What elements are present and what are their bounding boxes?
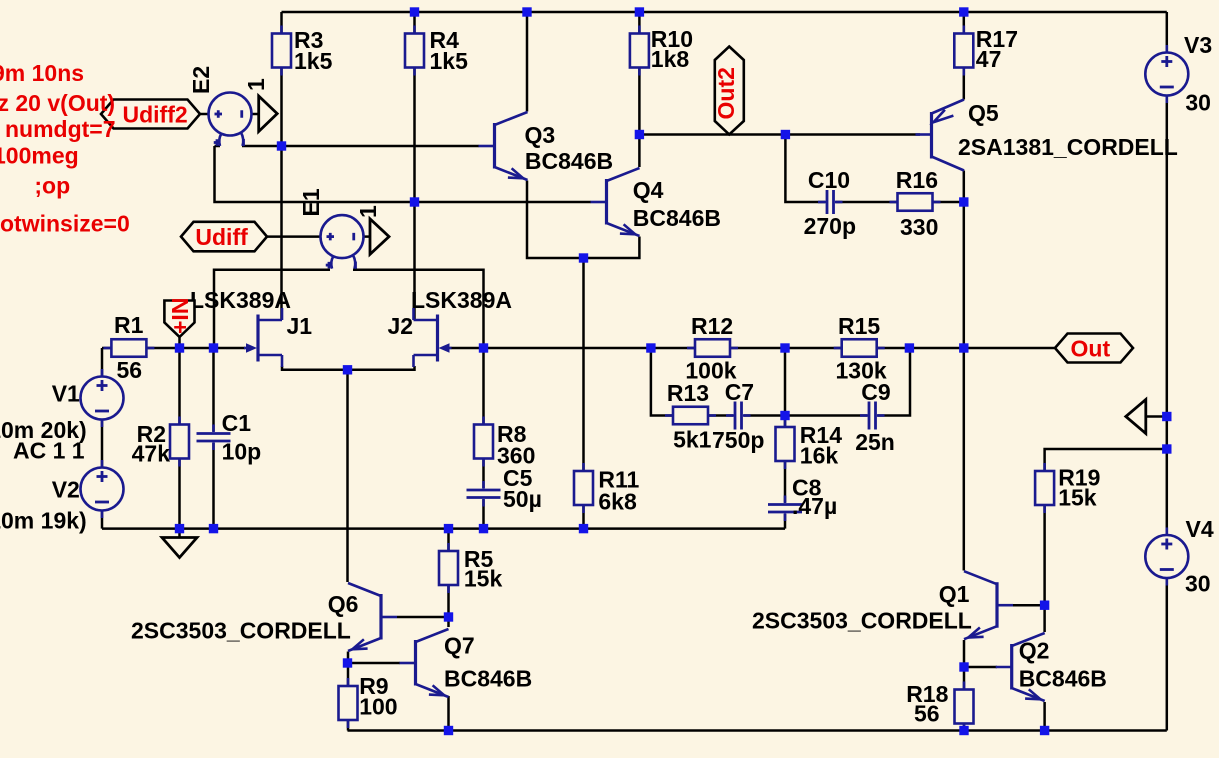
transistor Q3 BC846B xyxy=(479,112,614,180)
wire R2 column xyxy=(178,348,181,529)
wire R4 / J2 drain column xyxy=(413,12,416,320)
port Udiff xyxy=(181,222,267,252)
svg-text:E2: E2 xyxy=(188,66,214,94)
svg-text:Q7: Q7 xyxy=(444,633,475,659)
wire Q5 collector rail to Q1 xyxy=(963,171,966,571)
svg-text:C10: C10 xyxy=(808,167,850,193)
svg-text:2SC3503_CORDELL: 2SC3503_CORDELL xyxy=(752,608,972,634)
wire E1 out to buffer xyxy=(364,235,371,238)
wire Q6/Q7 base node wire xyxy=(348,662,400,665)
svg-text:330: 330 xyxy=(900,214,938,240)
wire +IN port stub xyxy=(178,337,181,348)
wire E2 minus to Q3 base xyxy=(242,145,479,148)
wire Udiff2 to E2 xyxy=(200,113,209,116)
transistor Q4 BC846B xyxy=(591,168,722,236)
capacitor C7 750p xyxy=(712,379,764,453)
ground xyxy=(162,538,197,558)
junction ground / R2 xyxy=(175,524,184,533)
svg-text:E1: E1 xyxy=(298,188,324,216)
wire feedback row xyxy=(484,347,1056,350)
junction Out2 node / C10 xyxy=(781,130,790,139)
svg-text:SINE(0 10m 19k): SINE(0 10m 19k) xyxy=(0,508,87,534)
svg-text:5k1: 5k1 xyxy=(673,427,712,453)
wire R19 column xyxy=(1045,449,1167,605)
wire J2 gate wire xyxy=(451,347,484,350)
transistor Q7 BC846B xyxy=(400,629,533,697)
transistor Q5 2SA1381_CORDELL xyxy=(916,100,1178,171)
wire right rail V3 top xyxy=(1166,12,1169,53)
svg-text:BC846B: BC846B xyxy=(1019,666,1107,692)
junction R12 / R13 xyxy=(646,343,655,352)
wire E2 plus jog xyxy=(215,145,221,148)
junction R19 / Q1 base / Q2 collector xyxy=(1040,601,1049,610)
wire Q3 collector xyxy=(526,12,529,112)
wire R18 column xyxy=(963,667,966,731)
port +IN xyxy=(164,298,194,337)
svg-text:BC846B: BC846B xyxy=(633,205,721,231)
wire reference arrow stub xyxy=(1146,415,1167,418)
svg-text:V4: V4 xyxy=(1186,516,1214,542)
svg-text:15k: 15k xyxy=(464,566,503,592)
reference arrow xyxy=(1126,400,1146,434)
svg-text:C7: C7 xyxy=(725,379,754,405)
junction Q4 base node xyxy=(410,197,419,206)
svg-text:Out2: Out2 xyxy=(713,67,739,119)
svg-text:z 20 v(Out): z 20 v(Out) xyxy=(0,90,115,116)
E source E2 xyxy=(188,66,269,146)
junction ground / C1 xyxy=(209,524,218,533)
resistor R15 130k xyxy=(834,313,887,384)
svg-text:1k5: 1k5 xyxy=(430,48,469,74)
svg-text:100meg: 100meg xyxy=(0,143,79,169)
wire R17 / Q5 emitter column xyxy=(963,12,966,100)
wire R11 column xyxy=(582,258,585,529)
svg-text:V1: V1 xyxy=(52,381,80,407)
svg-text:10p: 10p xyxy=(222,439,262,465)
capacitor C5 50u xyxy=(466,465,542,512)
wire C9 up to R15 right xyxy=(878,348,911,416)
wire Q1 emitter to node xyxy=(963,640,966,667)
svg-text:BC846B: BC846B xyxy=(525,148,613,174)
port Out xyxy=(1055,334,1133,363)
junction R16 / Q5 collector xyxy=(959,197,968,206)
wire right rail xyxy=(1166,95,1169,537)
wire input row xyxy=(102,347,245,350)
wire Q2 base wire xyxy=(964,666,997,669)
directive .four xyxy=(0,90,115,116)
transistor Q2 BC846B xyxy=(996,633,1107,701)
junction output node xyxy=(959,343,968,352)
svg-text:47k: 47k xyxy=(132,441,171,467)
wire tail to Q6 collector xyxy=(346,370,349,582)
directive 100meg xyxy=(0,143,79,169)
svg-text:R12: R12 xyxy=(691,313,733,339)
wire E1 plus sense riser xyxy=(214,270,330,348)
svg-text:1k8: 1k8 xyxy=(651,46,690,72)
wire ground rail xyxy=(102,527,785,530)
junction R15 / C9 xyxy=(905,343,914,352)
capacitor C10 270p xyxy=(804,167,856,239)
junction bottom rail / Q2 emitter xyxy=(1040,726,1049,735)
svg-text:;op: ;op xyxy=(34,173,70,199)
resistor R3 1k5 xyxy=(272,26,333,76)
resistor R10 1k8 xyxy=(630,26,693,76)
svg-text:numdgt=7: numdgt=7 xyxy=(5,116,116,142)
transistor Q6 2SC3503_CORDELL xyxy=(131,583,397,651)
resistor R2 47k xyxy=(132,417,189,467)
svg-text:Q1: Q1 xyxy=(939,581,970,607)
svg-text:56: 56 xyxy=(117,357,143,383)
port Udiff2 xyxy=(101,100,200,129)
resistor R17 47 xyxy=(954,26,1018,76)
svg-text:R13: R13 xyxy=(667,380,709,406)
wire C10 to R16 to Q5 collector xyxy=(834,201,964,204)
svg-text:Q6: Q6 xyxy=(328,591,359,617)
wire Q6 emitter to node xyxy=(347,652,350,664)
wire C10 drop xyxy=(785,135,826,203)
svg-text:270p: 270p xyxy=(804,213,856,239)
svg-text:56: 56 xyxy=(914,701,940,727)
junction top bus / Q3 collector xyxy=(522,7,531,16)
svg-text:1: 1 xyxy=(243,78,269,91)
junction Out2 node / R10 xyxy=(635,130,644,139)
wire R8 C5 column xyxy=(482,348,485,529)
svg-text:Q3: Q3 xyxy=(525,122,556,148)
junction bottom rail / R18 xyxy=(959,726,968,735)
resistor R9 100 xyxy=(339,673,398,728)
wire R12-R15 mid drop xyxy=(784,348,787,416)
svg-text:9m 10ns: 9m 10ns xyxy=(0,60,84,86)
wire bottom rail xyxy=(348,729,1167,732)
svg-text:V3: V3 xyxy=(1184,32,1212,58)
junction +IN node xyxy=(175,343,184,352)
junction R5 / Q6 base / Q7 collector xyxy=(444,612,453,621)
junction bottom rail / Q7 emitter xyxy=(444,726,453,735)
resistor R1 56 xyxy=(103,312,154,383)
JFET J1 LSK389A xyxy=(190,287,312,367)
junction Q3 base node xyxy=(277,141,286,150)
svg-text:2SA1381_CORDELL: 2SA1381_CORDELL xyxy=(958,134,1178,160)
svg-text:16k: 16k xyxy=(800,443,839,469)
svg-text:100: 100 xyxy=(359,694,397,720)
wire E1 minus riser to J2 gate xyxy=(353,270,484,348)
wire R5 column xyxy=(447,529,450,617)
wire Q3 emitter to rail xyxy=(527,181,639,259)
wire Out2 node row xyxy=(639,133,920,136)
wire R14 node to C9 xyxy=(785,414,871,417)
junction J1 J2 sources xyxy=(343,365,352,374)
directive plotwinsize xyxy=(0,211,130,237)
wire V1 V2 column xyxy=(101,348,104,529)
resistor R5 15k xyxy=(439,543,502,593)
resistor R8 360 xyxy=(474,417,535,469)
svg-text:25n: 25n xyxy=(855,429,895,455)
svg-text:50µ: 50µ xyxy=(503,486,542,512)
wire E2 plus riser xyxy=(215,146,591,202)
voltage source V2 xyxy=(0,460,124,534)
junction emitter rail / R11 xyxy=(579,253,588,262)
svg-text:otwinsize=0: otwinsize=0 xyxy=(0,211,130,237)
wire ground stub xyxy=(178,529,181,538)
junction Q1 emitter / Q2 base / R18 xyxy=(959,662,968,671)
resistor R14 16k xyxy=(776,419,843,469)
svg-text:J1: J1 xyxy=(287,313,313,339)
wire Q7 collector stub xyxy=(447,617,450,627)
wire J1 J2 source rail xyxy=(282,366,415,370)
JFET J2 LSK389A xyxy=(388,287,512,367)
resistor R18 56 xyxy=(906,681,973,732)
resistor R12 100k xyxy=(685,313,738,384)
svg-text:750p: 750p xyxy=(712,427,764,453)
junction ground rail / C5 xyxy=(479,524,488,533)
svg-text:+IN: +IN xyxy=(167,298,193,334)
svg-text:BC846B: BC846B xyxy=(444,666,532,692)
svg-text:LSK389A: LSK389A xyxy=(411,287,512,313)
junction ground rail / R5 xyxy=(444,524,453,533)
svg-text:C9: C9 xyxy=(861,379,890,405)
resistor R11 6k8 xyxy=(574,463,640,515)
directive ;op xyxy=(34,173,70,199)
svg-text:C1: C1 xyxy=(222,410,252,436)
svg-text:R15: R15 xyxy=(838,313,880,339)
svg-text:2SC3503_CORDELL: 2SC3503_CORDELL xyxy=(131,618,351,644)
svg-text:Q2: Q2 xyxy=(1019,638,1050,664)
junction top bus / R10 xyxy=(635,7,644,16)
svg-text:Q4: Q4 xyxy=(633,177,664,203)
wire Q7 emitter stub xyxy=(447,696,450,731)
wire R9 column xyxy=(347,663,350,731)
E2 buffer triangle xyxy=(259,96,278,132)
junction C1 / E1 sense xyxy=(209,343,218,352)
svg-text:.47µ: .47µ xyxy=(792,493,837,519)
capacitor C8 .47u xyxy=(767,475,837,522)
svg-text:47: 47 xyxy=(976,46,1002,72)
svg-text:Udiff2: Udiff2 xyxy=(123,101,188,127)
junction ground rail / R11 xyxy=(579,524,588,533)
voltage source V4 30 xyxy=(1145,516,1214,597)
junction C7 / C9 / R14 xyxy=(780,411,789,420)
svg-text:Udiff: Udiff xyxy=(195,224,248,250)
svg-text:Q5: Q5 xyxy=(968,100,999,126)
voltage source V1 xyxy=(0,369,124,464)
wire R14 / C8 column xyxy=(784,416,787,529)
wire Q1 base wire xyxy=(1013,604,1045,607)
wire R10 / Q4 collector column xyxy=(638,12,641,167)
port Out2 xyxy=(713,47,744,135)
directive numdgt xyxy=(5,116,116,142)
svg-text:6k8: 6k8 xyxy=(598,489,637,515)
wire C1 column xyxy=(212,348,215,529)
directive .tran xyxy=(0,60,84,86)
wire right rail lower xyxy=(1166,579,1169,731)
junction right rail / R19 xyxy=(1162,444,1171,453)
resistor R19 15k xyxy=(1035,463,1100,513)
capacitor C9 25n xyxy=(855,379,895,455)
junction R12-R15 mid xyxy=(780,343,789,352)
resistor R13 5k1 xyxy=(665,380,716,453)
capacitor C1 10p xyxy=(196,410,262,465)
wire Q6 base wire xyxy=(397,616,449,619)
svg-text:J2: J2 xyxy=(388,313,414,339)
svg-text:LSK389A: LSK389A xyxy=(190,287,291,313)
svg-text:AC 1 1: AC 1 1 xyxy=(13,438,85,464)
resistor R4 1k5 xyxy=(405,26,468,76)
wire Udiff to E1 xyxy=(267,235,321,238)
wire R3 / J1 drain column xyxy=(280,12,283,320)
wire Q2 emitter stub xyxy=(1043,702,1046,731)
svg-text:30: 30 xyxy=(1185,571,1211,597)
svg-text:1k5: 1k5 xyxy=(294,48,333,74)
resistor R16 330 xyxy=(890,167,941,240)
junction Q6 emitter / Q7 base / R9 xyxy=(343,658,352,667)
transistor Q1 2SC3503_CORDELL xyxy=(752,571,1013,639)
svg-text:Out: Out xyxy=(1071,336,1111,362)
E source E1 xyxy=(298,188,381,268)
wire top supply bus xyxy=(282,11,1167,14)
junction right rail / reference arrow xyxy=(1162,412,1171,421)
junction top bus / R4 xyxy=(410,7,419,16)
junction top bus / R17 xyxy=(959,7,968,16)
E1 buffer triangle xyxy=(370,219,389,255)
wire R13 row drop xyxy=(651,348,737,416)
voltage source V3 30 xyxy=(1145,32,1212,116)
wire C7 to R14 node xyxy=(744,414,785,417)
svg-text:R1: R1 xyxy=(114,312,144,338)
junction J2 gate / R8 xyxy=(479,343,488,352)
svg-text:V2: V2 xyxy=(52,477,80,503)
svg-text:R16: R16 xyxy=(896,167,938,193)
svg-text:30: 30 xyxy=(1185,90,1211,116)
svg-text:1: 1 xyxy=(355,205,381,218)
svg-text:15k: 15k xyxy=(1058,485,1097,511)
wire E2 out to buffer xyxy=(252,113,259,116)
wire Q2 collector stub xyxy=(1043,605,1046,632)
